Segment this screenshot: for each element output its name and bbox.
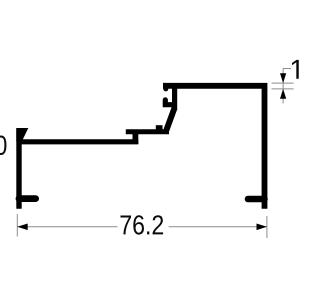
arrowhead down thickness [280,73,286,83]
profile left bottom stub [19,195,36,202]
profile left wall [16,129,21,209]
profile middle tick [156,125,163,132]
arrowhead up thickness [280,89,286,99]
arrowhead left of 76.2 [17,224,27,231]
extension line thickness top [272,82,294,84]
arrowhead right of 76.2 [257,224,267,231]
profile left top wedge [16,128,28,142]
dimension line thickness vertical [282,69,284,104]
profile diagonal web [165,108,174,133]
profile step riser [132,130,138,145]
extension line bottom left [16,214,18,237]
profile right bottom stub [248,196,265,203]
label 76.2 [120,215,163,234]
profile middle bar [126,129,169,134]
profile top bar left tick [163,88,168,89]
leader to label 1 [283,68,291,70]
extension line bottom right [266,216,268,238]
dimension line 76.2 left segment [17,226,117,228]
dimension line 76.2 right segment [169,226,267,228]
profile lower arm [19,139,138,144]
profile upper web [172,83,177,110]
extension line thickness bottom [272,88,294,90]
profile top bar and right wall [163,86,265,209]
profile clip hook [165,100,173,105]
label 0 clipped [0,135,6,154]
label 1 [292,60,299,79]
